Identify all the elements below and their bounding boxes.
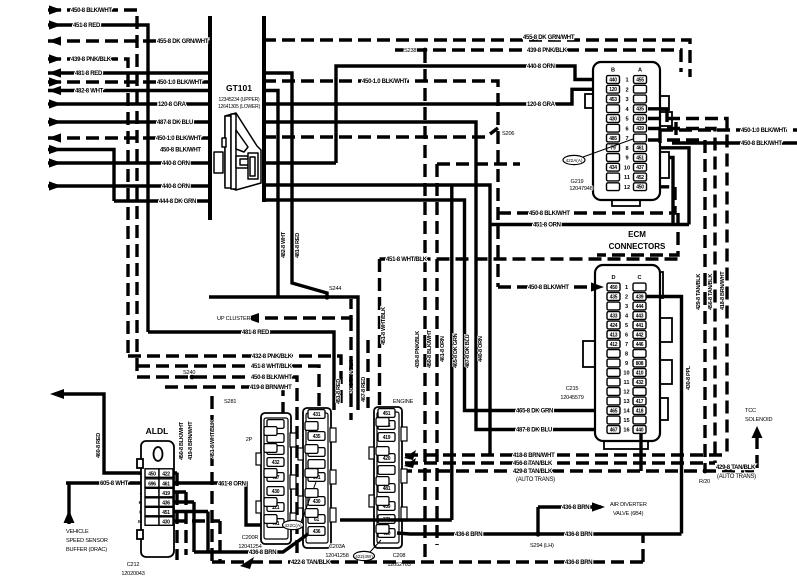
svg-text:460-8 RED: 460-8 RED (96, 433, 102, 458)
svg-text:432: 432 (272, 460, 280, 466)
svg-text:12345234 (UPPER): 12345234 (UPPER) (219, 97, 261, 103)
svg-text:SPEED SENSOR: SPEED SENSOR (66, 538, 108, 544)
wire 461-8 ORN from ALDL (173, 483, 269, 525)
svg-text:450-8 BLK/WHT: 450-8 BLK/WHT (179, 421, 185, 460)
svg-text:419-8 BRN/WHT: 419-8 BRN/WHT (188, 421, 194, 460)
svg-text:C: C (637, 275, 641, 281)
svg-text:451-8 WHT/BLK: 451-8 WHT/BLK (210, 420, 216, 458)
wire 436-8 BRN dashed bottom (212, 534, 643, 562)
svg-text:436-8 BRN: 436-8 BRN (455, 532, 482, 538)
svg-text:440-8 ORN: 440-8 ORN (527, 64, 555, 70)
wire 450-1.0 BLK/WHT right edge (660, 128, 797, 131)
svg-text:9: 9 (625, 156, 628, 162)
svg-text:(AUTO TRANS): (AUTO TRANS) (717, 474, 756, 480)
svg-text:451: 451 (636, 155, 644, 161)
wire D1 feed with arrow (498, 282, 604, 291)
svg-text:2P: 2P (246, 437, 253, 443)
svg-text:430-8 PPL: 430-8 PPL (686, 365, 692, 390)
wire 436-8 BRN main (397, 533, 682, 534)
svg-text:S281: S281 (224, 399, 236, 405)
svg-text:432-8 PNK/BLK: 432-8 PNK/BLK (252, 354, 293, 360)
svg-text:11: 11 (624, 380, 630, 386)
svg-text:452: 452 (636, 175, 644, 181)
svg-text:429-8 TAN/BLK: 429-8 TAN/BLK (716, 465, 756, 471)
svg-text:435: 435 (636, 107, 644, 113)
connector C208 (369, 407, 407, 548)
svg-text:12047948: 12047948 (569, 186, 592, 192)
wire A9 riser (648, 158, 673, 225)
wire UP CLUSTER dashed (246, 299, 351, 318)
svg-text:433: 433 (610, 313, 618, 319)
svg-text:7: 7 (625, 342, 628, 348)
connector C203A (298, 408, 336, 548)
svg-text:430: 430 (609, 116, 617, 122)
wire 432-8 PNK/BLK staircase (128, 356, 341, 409)
splice callout 422(4W) (354, 551, 375, 560)
svg-text:429-8 TAN/BLK: 429-8 TAN/BLK (513, 469, 553, 475)
wire 487-8 DK BLU run (263, 122, 607, 430)
svg-text:450-8 BLK/WHT: 450-8 BLK/WHT (251, 375, 292, 381)
GT101 label (218, 83, 261, 110)
svg-text:430: 430 (272, 489, 280, 495)
svg-text:461-8 ORN: 461-8 ORN (218, 482, 246, 488)
svg-text:5: 5 (625, 117, 628, 123)
svg-text:450-1.0 BLK/WHT: 450-1.0 BLK/WHT (157, 80, 203, 86)
svg-text:2: 2 (625, 87, 628, 93)
svg-text:434: 434 (609, 165, 617, 171)
svg-text:482-8 WHT: 482-8 WHT (281, 231, 287, 258)
wire dashed jog at 437 (437, 162, 520, 165)
svg-text:461: 461 (636, 146, 644, 152)
bulkhead left wall (208, 16, 212, 220)
svg-text:456-8 TAN/BLK: 456-8 TAN/BLK (708, 274, 714, 310)
svg-text:J: J (139, 490, 142, 495)
svg-text:10: 10 (623, 371, 629, 377)
connector C215 shell (583, 272, 672, 449)
svg-text:440-8 ORN: 440-8 ORN (478, 336, 484, 362)
svg-text:487-8 DK BLU: 487-8 DK BLU (516, 428, 552, 434)
left arrowheads (48, 5, 62, 190)
wire 429-8 TAN/BLK bottom dashed (380, 437, 757, 471)
wire 444-8 DK GRN left (114, 199, 210, 202)
svg-text:418-8 BRN/WHT: 418-8 BRN/WHT (720, 271, 726, 310)
svg-text:15: 15 (623, 418, 629, 424)
svg-text:440: 440 (636, 427, 644, 433)
svg-text:5: 5 (625, 323, 628, 329)
svg-text:455: 455 (636, 77, 644, 83)
UP CLUSTER arrow (245, 313, 259, 323)
svg-text:L: L (139, 510, 142, 515)
svg-text:450-8 BLK/WHT: 450-8 BLK/WHT (71, 8, 112, 14)
svg-text:436: 436 (162, 500, 170, 506)
wire 450-1.0 BLK/WHT second left (48, 136, 210, 139)
wire stub y520 (340, 518, 452, 521)
svg-text:S238: S238 (404, 48, 416, 54)
svg-text:CONNECTORS: CONNECTORS (609, 242, 666, 251)
svg-text:450-1.0 BLK/WHT: 450-1.0 BLK/WHT (741, 128, 787, 134)
svg-text:R/20: R/20 (699, 479, 710, 485)
svg-text:441: 441 (636, 323, 644, 329)
svg-text:451: 451 (162, 510, 170, 516)
svg-text:14: 14 (623, 409, 630, 415)
wire 605-8 WHT (66, 481, 141, 484)
svg-text:451: 451 (383, 411, 391, 417)
bulkhead right wall (262, 16, 266, 202)
svg-text:9: 9 (625, 361, 628, 367)
svg-text:436-8 BRN: 436-8 BRN (562, 505, 589, 511)
wire A8 riser (648, 148, 689, 225)
svg-text:S244: S244 (329, 286, 341, 292)
wire 450-8 BLK/WHT dashed riser (mid) (435, 164, 438, 545)
svg-text:439: 439 (636, 294, 644, 300)
svg-text:419: 419 (383, 435, 391, 441)
svg-text:VEHICLE: VEHICLE (66, 529, 89, 535)
wire 440-8 ORN upper run (336, 66, 607, 163)
svg-text:481-8 RED: 481-8 RED (75, 71, 103, 77)
svg-text:12641305 (LOWER): 12641305 (LOWER) (218, 104, 261, 110)
wire 440-8 ORN lower run (263, 185, 490, 455)
wire C16 drop (639, 433, 642, 471)
junction S294 (535, 531, 540, 536)
wire ALDL pin stubs and risers (173, 473, 177, 560)
svg-text:422A(A): 422A(A) (566, 158, 583, 163)
svg-text:3: 3 (625, 97, 628, 103)
svg-text:451-8 WHT/BLK: 451-8 WHT/BLK (381, 307, 387, 345)
svg-text:413: 413 (610, 332, 618, 338)
wire 451-8 WHT/BLK staircase (137, 366, 319, 408)
wire 450-1.0 BLK/WHT right run to S206 (263, 81, 498, 287)
wire 430-8 PPL riser from C2 (646, 297, 682, 534)
wire 482-8 WHT left (48, 89, 210, 92)
svg-text:GT101: GT101 (226, 83, 252, 93)
svg-text:439-8 PNK/BLK: 439-8 PNK/BLK (527, 48, 568, 54)
wire risers into strips (351, 318, 368, 420)
wire 451-8 WHT/BLK horizontal to ECM (380, 257, 681, 260)
svg-text:C203A: C203A (329, 544, 346, 550)
wire 450-1.0 BLK/WHT left (48, 80, 210, 83)
svg-text:UP CLUSTER: UP CLUSTER (217, 316, 250, 322)
svg-text:465: 465 (610, 408, 618, 414)
svg-text:450-8 BLK/WHT: 450-8 BLK/WHT (160, 148, 201, 154)
svg-text:SOLENOID: SOLENOID (745, 417, 772, 423)
connector ALDL pin boxes (145, 469, 173, 526)
svg-text:435: 435 (313, 434, 321, 440)
svg-text:439: 439 (636, 126, 644, 132)
svg-text:419-8 BRN/WHT: 419-8 BRN/WHT (250, 385, 292, 391)
junction R/20 (703, 469, 708, 474)
svg-text:A: A (638, 68, 642, 74)
svg-text:S240: S240 (183, 370, 195, 376)
svg-text:442: 442 (636, 332, 644, 338)
svg-text:808: 808 (636, 361, 644, 367)
svg-text:D: D (611, 275, 615, 281)
svg-text:C212: C212 (127, 562, 140, 568)
svg-text:M: M (138, 519, 142, 524)
svg-text:451-8 WHT/BLK: 451-8 WHT/BLK (386, 257, 428, 263)
svg-text:487-8 DK BLU: 487-8 DK BLU (465, 334, 471, 368)
svg-text:435: 435 (610, 294, 618, 300)
wire 455-8 DK GRN/WHT left (48, 39, 210, 42)
svg-text:12: 12 (624, 185, 630, 191)
svg-text:C208: C208 (393, 553, 406, 559)
svg-text:450-1.0 BLK/WHT: 450-1.0 BLK/WHT (156, 136, 202, 142)
svg-text:410: 410 (636, 370, 644, 376)
svg-text:450: 450 (148, 471, 156, 477)
wire 450-8 BLK/WHT dashed run under ECM (498, 187, 675, 213)
arrow air diverter (592, 502, 605, 511)
wire 461-8 ORN riser (450, 185, 453, 520)
wire 487-8 DK BLU left (48, 120, 210, 123)
svg-text:467: 467 (610, 427, 618, 433)
svg-text:481-8 RED: 481-8 RED (242, 330, 270, 336)
svg-text:BUFFER (DRAC): BUFFER (DRAC) (66, 547, 107, 553)
svg-text:AIR DIVERTER: AIR DIVERTER (610, 502, 647, 508)
svg-text:422(4W): 422(4W) (355, 554, 373, 559)
svg-text:440-8 ORN: 440-8 ORN (162, 184, 190, 190)
svg-text:E: E (176, 510, 179, 515)
svg-text:451-8 RED: 451-8 RED (336, 379, 342, 404)
svg-text:424: 424 (610, 323, 618, 329)
wire 450-8 BLK/WHT mid-left riser (48, 150, 114, 202)
svg-text:6: 6 (625, 333, 628, 339)
svg-text:461: 461 (162, 481, 170, 487)
right side labels (513, 128, 787, 485)
svg-text:G219: G219 (571, 179, 584, 185)
svg-text:450-8 BLK/WHT: 450-8 BLK/WHT (741, 141, 782, 147)
wire 450-1.0 BLK/WHT run to S206 (263, 128, 498, 137)
svg-text:605-8 WHT: 605-8 WHT (100, 481, 129, 487)
svg-text:120-8 GRA: 120-8 GRA (158, 102, 187, 108)
svg-text:1: 1 (625, 285, 628, 291)
svg-text:482-8 WHT: 482-8 WHT (75, 89, 104, 95)
svg-text:12020043: 12020043 (121, 571, 144, 577)
svg-text:430: 430 (313, 499, 321, 505)
wire 450-8 BLK/WHT right edge (672, 141, 797, 144)
svg-text:437: 437 (636, 165, 644, 171)
svg-text:11: 11 (624, 175, 630, 181)
wire S238 riser (423, 50, 426, 562)
svg-text:6: 6 (625, 126, 628, 132)
wire A6 439 to right riser (648, 129, 715, 464)
svg-text:10: 10 (624, 165, 630, 171)
arrows at left ends of trans wires (404, 450, 416, 460)
wire 444-8 DK GRN run (263, 200, 607, 411)
wire 461-8 ORN long run (490, 223, 689, 226)
wire 451-8 WHT/BLK dashed riser long (378, 259, 381, 545)
svg-text:440: 440 (609, 77, 617, 83)
mid run labels (281, 35, 575, 368)
wire short corners right of C219 (648, 109, 676, 143)
svg-text:444-8 DK GRN: 444-8 DK GRN (159, 199, 196, 205)
svg-text:B: B (611, 68, 615, 74)
splice callout 422A(A) (563, 139, 633, 165)
svg-text:487-8 DK BLU: 487-8 DK BLU (157, 120, 193, 126)
wire 455-8 DK GRN/WHT right run (263, 40, 690, 77)
svg-text:422-8 TAN/BLK: 422-8 TAN/BLK (291, 560, 331, 566)
svg-text:455-8 DK GRN/WHT: 455-8 DK GRN/WHT (157, 39, 209, 45)
arrow 422-8 TAN/BLK (240, 557, 254, 569)
svg-text:436-8 BRN: 436-8 BRN (565, 532, 592, 538)
svg-text:465-8 DK GRN: 465-8 DK GRN (516, 409, 553, 415)
svg-text:451-8 RED: 451-8 RED (73, 23, 101, 29)
extra staggered boxes on strips (264, 418, 389, 534)
svg-text:467-8 RED: 467-8 RED (361, 377, 367, 402)
svg-text:436: 436 (313, 529, 321, 535)
svg-text:S294 (LH): S294 (LH) (530, 543, 554, 549)
svg-text:453: 453 (609, 97, 617, 103)
svg-text:12045579: 12045579 (560, 395, 583, 401)
ALDL labels (66, 420, 246, 577)
connector C219 shell (585, 94, 672, 206)
wire 481-8 RED right riser (263, 73, 327, 297)
wire 451-8 RED (48, 25, 148, 332)
svg-text:485: 485 (609, 136, 617, 142)
svg-text:C200R: C200R (242, 535, 259, 541)
svg-text:432: 432 (636, 380, 644, 386)
wire 436-8 BRN to air diverter (538, 505, 601, 508)
wire A5 419-8 BRN/WHT to right riser (648, 119, 727, 456)
wire dashed box edge (210, 396, 213, 562)
wire 120-8 GRA left (48, 102, 210, 105)
wire VSS drop (67, 483, 70, 524)
junction S240 (190, 375, 195, 380)
wire 440-8 ORN bulkhead stub (263, 161, 336, 164)
svg-text:451-8 WHT/BLK: 451-8 WHT/BLK (251, 364, 293, 370)
svg-text:ECM: ECM (628, 230, 646, 239)
svg-text:456-8 TAN/BLK: 456-8 TAN/BLK (513, 461, 553, 467)
svg-text:8: 8 (625, 352, 628, 358)
svg-text:439-8 PNK/BLK: 439-8 PNK/BLK (71, 57, 112, 63)
wire 436-8 BRN solid to C203A (194, 534, 308, 552)
svg-text:418: 418 (636, 408, 644, 414)
wire S244 horizontal (209, 297, 358, 410)
wire 456-8 TAN/BLK bottom dashed (405, 461, 715, 464)
wire 439-8 PNK/BLK right run with S238 (395, 50, 681, 72)
wire 440-8 ORN second left (48, 184, 210, 187)
svg-text:2: 2 (625, 295, 628, 301)
wire dashed box around ECM label (597, 213, 678, 255)
svg-text:461-8 ORN: 461-8 ORN (440, 336, 446, 362)
wire S294 riser (536, 507, 539, 534)
svg-text:422C(A): 422C(A) (284, 523, 302, 528)
svg-text:420: 420 (383, 456, 391, 462)
svg-text:VALVE (6B4): VALVE (6B4) (613, 511, 644, 517)
wire 418-8 BRN/WHT bottom dashed (405, 453, 727, 456)
svg-text:TCC: TCC (745, 408, 756, 414)
arrow VSS (64, 510, 75, 523)
svg-text:430: 430 (162, 519, 170, 525)
svg-text:F: F (176, 471, 179, 476)
svg-text:440-8 ORN: 440-8 ORN (162, 161, 190, 167)
wire 439-8 PNK/BLK (48, 59, 128, 356)
svg-text:417: 417 (636, 399, 644, 405)
svg-text:450: 450 (610, 285, 618, 291)
svg-text:ALDL: ALDL (146, 426, 169, 436)
wire 440-8 ORN left (48, 161, 210, 164)
TCC solenoid arrow (752, 426, 763, 438)
left wire labels (71, 8, 209, 205)
svg-text:481: 481 (383, 486, 391, 492)
svg-text:450: 450 (636, 185, 644, 191)
svg-text:8: 8 (625, 146, 628, 152)
svg-text:(AUTO TRANS): (AUTO TRANS) (516, 477, 555, 483)
wire 450-8 BLK/WHT (top) (48, 10, 137, 377)
svg-text:439-8 PNK/BLK: 439-8 PNK/BLK (415, 331, 421, 368)
svg-text:450-1.0 BLK/WHT: 450-1.0 BLK/WHT (362, 79, 408, 85)
connector C200R (256, 413, 296, 544)
wire 120-8 GRA run (263, 89, 607, 104)
svg-text:443: 443 (636, 313, 644, 319)
svg-text:1: 1 (625, 78, 628, 84)
svg-text:446: 446 (636, 342, 644, 348)
svg-text:465-8 DK GRN: 465-8 DK GRN (453, 333, 459, 368)
svg-text:422: 422 (162, 471, 170, 477)
wire A7 to right riser (648, 140, 705, 471)
svg-text:C215: C215 (566, 386, 579, 392)
svg-text:120-8 GRA: 120-8 GRA (527, 102, 556, 108)
wire 450-8 BLK/WHT staircase (137, 377, 297, 562)
connector ALDL shell (137, 441, 174, 557)
arrow 460-8 RED (50, 389, 64, 399)
svg-text:S206: S206 (502, 131, 514, 137)
svg-text:429-8 TAN/BLK: 429-8 TAN/BLK (696, 274, 702, 310)
svg-text:13: 13 (623, 399, 629, 405)
svg-text:451-8 ORN: 451-8 ORN (533, 223, 561, 229)
svg-text:419: 419 (636, 116, 644, 122)
svg-text:436-8 BRN: 436-8 BRN (565, 560, 592, 566)
GT101 pass-through symbol (214, 113, 261, 190)
wire 419-8 BRN/WHT staircase (165, 387, 283, 520)
wire 481-8 RED left (48, 71, 210, 74)
svg-text:12041258: 12041258 (325, 553, 348, 559)
svg-text:696: 696 (148, 481, 156, 487)
wire 481-8 RED horizontal (148, 332, 334, 410)
junction S238 (423, 48, 428, 53)
svg-text:3: 3 (625, 304, 628, 310)
svg-text:G: G (138, 471, 142, 476)
svg-text:16: 16 (623, 428, 629, 434)
svg-text:436-8 BRN: 436-8 BRN (249, 550, 276, 556)
splice callout 422C(A) (283, 520, 304, 529)
svg-text:481-8 RED: 481-8 RED (295, 233, 301, 258)
svg-text:450-8 BLK/WHT: 450-8 BLK/WHT (528, 285, 569, 291)
svg-text:412: 412 (610, 342, 618, 348)
wire 460-8 RED (56, 394, 141, 473)
svg-text:444: 444 (636, 304, 644, 310)
svg-text:455-8 DK GRN/WHT: 455-8 DK GRN/WHT (523, 35, 575, 41)
svg-text:431: 431 (313, 412, 321, 418)
svg-text:120: 120 (609, 87, 617, 93)
svg-text:419: 419 (162, 491, 170, 497)
svg-text:450-8 BLK/WHT: 450-8 BLK/WHT (529, 211, 570, 217)
wire 482-8 WHT right riser (263, 91, 278, 298)
junction S244 (324, 294, 329, 299)
svg-text:ENGINE: ENGINE (393, 399, 414, 405)
svg-text:450-8 BLK/WHT: 450-8 BLK/WHT (427, 329, 433, 368)
svg-text:12: 12 (623, 390, 629, 396)
svg-text:418-8 BRN/WHT: 418-8 BRN/WHT (513, 453, 555, 459)
